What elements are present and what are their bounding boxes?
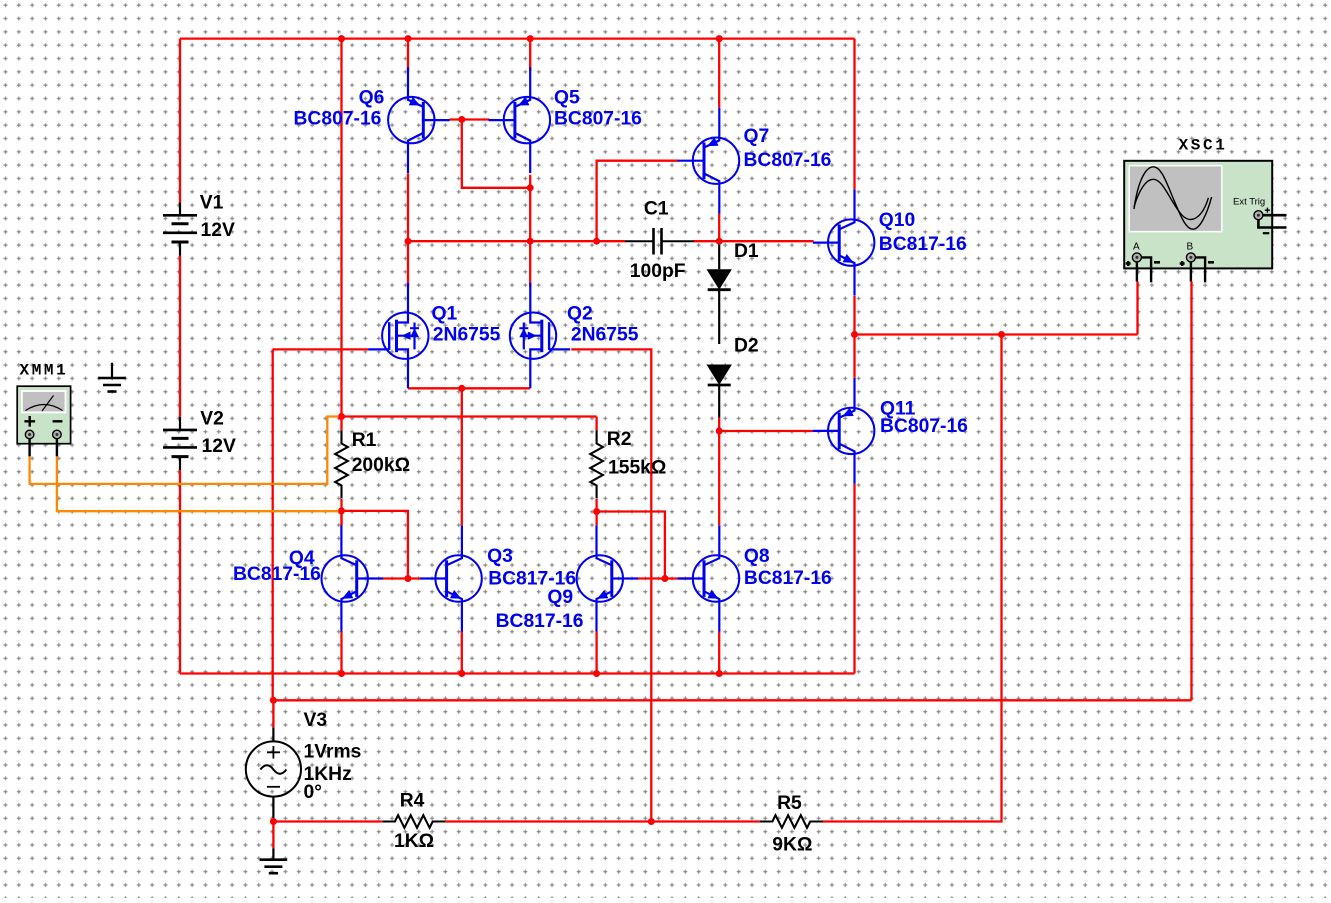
wire R1 to Q4 collector <box>340 499 342 526</box>
junction <box>338 35 345 42</box>
junction <box>998 331 1005 338</box>
wire C1 to Q10 base <box>694 240 814 242</box>
wire V3 minus to ground <box>272 818 274 848</box>
wire bottom rail <box>180 672 855 674</box>
wire R1 node to Q4-Q3 base line <box>342 511 408 579</box>
wire Q8 emitter to rail <box>718 632 720 674</box>
svg-text:BC817-16: BC817-16 <box>744 568 832 589</box>
svg-text:2N6755: 2N6755 <box>571 325 639 346</box>
wire node to V3 plus <box>272 700 274 727</box>
svg-text:XMM1: XMM1 <box>20 362 69 380</box>
svg-text:BC817-16: BC817-16 <box>233 564 321 585</box>
wire gate line down to V3 node <box>272 349 274 700</box>
svg-text:Q9: Q9 <box>547 587 573 608</box>
transistor Q2 <box>510 283 570 388</box>
resistor R5 body <box>760 815 823 828</box>
svg-text:C1: C1 <box>644 198 669 219</box>
wire Q6 base to Q5 base <box>450 118 490 120</box>
wire Q10 collector to rail <box>853 39 855 190</box>
junction <box>338 670 345 677</box>
transistor Q10 <box>813 190 875 296</box>
wire V2 to bottom rail <box>179 470 181 673</box>
wire V3 to R4 <box>273 820 382 822</box>
transistor Q3 <box>420 526 482 632</box>
junction <box>716 35 723 42</box>
wire scope A drop <box>1136 282 1138 335</box>
wire R2 top lead <box>595 417 597 431</box>
junction <box>405 238 412 245</box>
svg-text:XSC1: XSC1 <box>1179 137 1228 155</box>
wire output to scope A <box>855 333 1138 335</box>
wire top supply rail <box>180 37 855 39</box>
wire Q9 emitter to rail <box>595 632 597 674</box>
junction <box>527 35 534 42</box>
wire R1 top to R2 top <box>342 415 597 417</box>
wire R4-R5 node to R5 <box>651 820 760 822</box>
svg-text:1Vrms: 1Vrms <box>304 742 362 763</box>
svg-text:BC817-16: BC817-16 <box>879 234 967 255</box>
junction <box>338 507 345 514</box>
wire scope B drop <box>1190 282 1192 701</box>
wire D1 anode lead <box>718 243 720 270</box>
wire node to Q11 base <box>719 430 813 432</box>
instrument XMM1 multimeter <box>17 386 70 456</box>
junction <box>661 575 668 582</box>
wire Q9 base to Q8 base <box>638 577 694 579</box>
wire V3 node to scope B <box>273 699 1191 701</box>
svg-text:BC807-16: BC807-16 <box>294 109 382 130</box>
wire Q2 gate down to R4-R5 node <box>571 349 651 821</box>
junction <box>458 670 465 677</box>
wire Q4 emitter to rail <box>340 632 342 674</box>
svg-text:A: A <box>1133 242 1140 253</box>
junction <box>270 697 277 704</box>
wire R2 node to Q8 base line <box>597 512 665 579</box>
svg-text:Q8: Q8 <box>744 546 770 567</box>
wire D2 cathode lead <box>718 385 720 418</box>
svg-text:0°: 0° <box>304 782 322 803</box>
junction <box>527 238 534 245</box>
transistor Q1 <box>368 283 428 388</box>
wire V1 top <box>179 39 181 203</box>
junction <box>458 385 465 392</box>
wire Q3 emitter to rail <box>461 632 463 674</box>
junction <box>716 670 723 677</box>
transistor Q7 <box>678 108 740 214</box>
svg-text:Q1: Q1 <box>432 303 458 324</box>
svg-text:200kΩ: 200kΩ <box>352 455 410 476</box>
svg-text:B: B <box>1187 242 1194 253</box>
junction <box>593 238 600 245</box>
svg-text:Ext Trig: Ext Trig <box>1233 197 1265 208</box>
svg-text:BC807-16: BC807-16 <box>744 150 832 171</box>
svg-text:9KΩ: 9KΩ <box>772 834 812 855</box>
junction <box>716 238 723 245</box>
wire V1-V2 <box>179 256 181 418</box>
wire D1 cathode to D2 anode <box>718 290 720 344</box>
ground floating top-left <box>98 363 126 392</box>
svg-text:R5: R5 <box>777 793 802 814</box>
AC source V3 <box>246 728 301 818</box>
resistor R1 body <box>335 431 348 499</box>
battery V2 <box>163 417 197 470</box>
transistor Q5 <box>489 67 551 173</box>
wire base node to Q5 collector <box>462 120 530 188</box>
wire rail to Q6 <box>407 39 409 72</box>
resistor R4 body <box>382 815 445 828</box>
wire Q1-Q2 source link <box>408 387 530 389</box>
wire R4 to R4-R5 node <box>445 820 651 822</box>
svg-text:R4: R4 <box>400 791 425 812</box>
wire to Q9 collector <box>595 512 597 526</box>
transistor Q11 <box>813 378 875 484</box>
wire drain node to C1 <box>408 240 625 242</box>
svg-text:Q3: Q3 <box>487 546 513 567</box>
diode D1 <box>707 269 732 290</box>
junction <box>270 818 277 825</box>
resistor R2 body <box>590 431 603 499</box>
wire source node to Q3 collector <box>461 388 463 525</box>
wire Q6 to Q1 drain <box>407 173 409 287</box>
transistor Q8 <box>678 526 740 632</box>
svg-text:Q5: Q5 <box>554 88 580 109</box>
svg-text:R1: R1 <box>352 430 377 451</box>
junction <box>458 116 465 123</box>
svg-text:100pF: 100pF <box>630 261 686 282</box>
wire rail to Q5 <box>529 39 531 72</box>
instrument XSC1 oscilloscope <box>1124 161 1286 283</box>
wire feedback via R5 <box>822 335 1001 822</box>
transistor Q6 <box>388 67 450 173</box>
diode D2 <box>707 365 732 386</box>
wire node to Q8 collector <box>718 431 720 525</box>
wire Q5 to Q2 drain <box>529 175 531 287</box>
junction <box>593 508 600 515</box>
wire Q7 emitter to D1 node <box>718 214 720 243</box>
wire to D2 node <box>718 418 720 432</box>
svg-text:Q7: Q7 <box>744 126 770 147</box>
svg-text:12V: 12V <box>201 220 235 241</box>
wire Q7 base drop <box>597 161 679 242</box>
svg-text:BC807-16: BC807-16 <box>880 416 968 437</box>
wire XMM1 plus probe (orange) <box>30 417 339 484</box>
svg-text:R2: R2 <box>607 429 632 450</box>
junction <box>716 428 723 435</box>
svg-text:V2: V2 <box>200 408 224 429</box>
battery V1 <box>163 203 197 256</box>
svg-text:Q6: Q6 <box>359 88 385 109</box>
capacitor C1 <box>625 228 694 255</box>
junction <box>851 331 858 338</box>
transistor Q4 <box>322 526 384 632</box>
wire rail to Q7 <box>718 39 720 108</box>
svg-text:BC807-16: BC807-16 <box>554 109 642 130</box>
svg-text:Q2: Q2 <box>567 303 593 324</box>
svg-text:V3: V3 <box>304 710 328 731</box>
svg-text:D1: D1 <box>734 241 759 262</box>
svg-text:Q10: Q10 <box>879 210 915 231</box>
svg-text:BC817-16: BC817-16 <box>496 611 584 632</box>
svg-text:155kΩ: 155kΩ <box>608 458 666 479</box>
wire Q10 emitter to Q11 collector <box>853 296 855 378</box>
svg-text:V1: V1 <box>200 193 224 214</box>
wire R2 bottom <box>595 499 597 512</box>
svg-text:1KΩ: 1KΩ <box>394 831 434 852</box>
wire XMM1 minus probe (orange) <box>57 456 339 511</box>
wire Q11 emitter to rail <box>853 484 855 674</box>
svg-text:D2: D2 <box>734 336 759 357</box>
junction <box>527 184 534 191</box>
junction <box>648 818 655 825</box>
junction <box>593 670 600 677</box>
ground V3 <box>260 848 288 873</box>
junction <box>405 35 412 42</box>
wire rail to R1 <box>340 39 342 431</box>
svg-text:12V: 12V <box>202 436 236 457</box>
transistor Q9 <box>577 526 639 632</box>
wire to Q1 gate <box>273 348 368 350</box>
junction <box>404 575 411 582</box>
wire Q4 base to Q3 base <box>383 577 421 579</box>
svg-text:2N6755: 2N6755 <box>433 325 501 346</box>
junction <box>338 413 345 420</box>
wire R1 bottom to Q4 collector <box>340 511 342 526</box>
